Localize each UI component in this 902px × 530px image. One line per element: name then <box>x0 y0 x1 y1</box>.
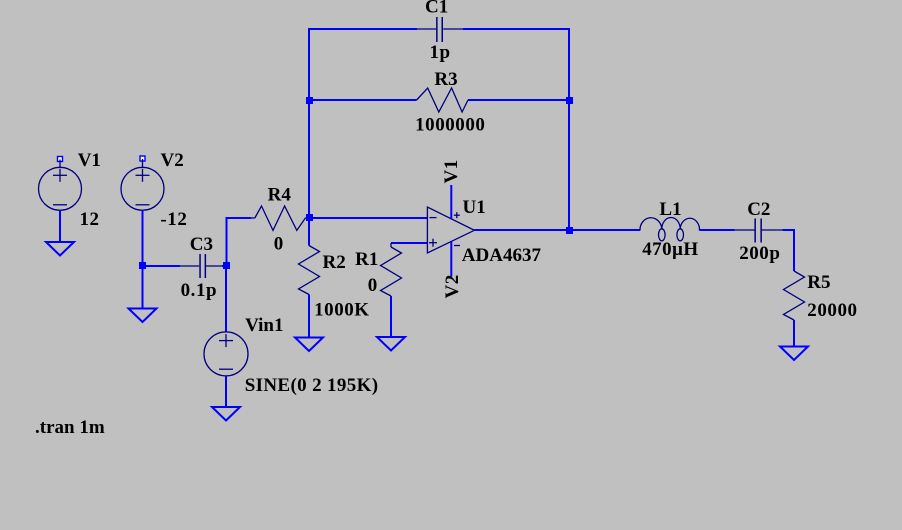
wire output <box>474 229 640 231</box>
wire top feedback left <box>308 28 417 30</box>
node junction R3 left <box>306 97 313 104</box>
svg-text:12: 12 <box>80 209 100 230</box>
svg-text:R1: R1 <box>355 249 378 270</box>
svg-text:1p: 1p <box>430 42 451 63</box>
node junction C3 right <box>223 262 230 269</box>
voltage source Vin1 <box>204 266 248 407</box>
wire C3 right <box>222 265 227 267</box>
wire V1 to ground <box>59 210 61 242</box>
wire R4 left <box>226 217 252 219</box>
svg-text:U1: U1 <box>463 197 486 218</box>
op-amp U1 <box>427 207 474 253</box>
wire corner down to R5 <box>793 229 795 271</box>
resistor R5 <box>784 271 805 347</box>
svg-text:V1: V1 <box>78 150 101 171</box>
svg-text:R2: R2 <box>323 252 346 273</box>
ground R1 <box>377 337 405 351</box>
node junction output <box>566 227 573 234</box>
wire C3 left <box>143 265 181 267</box>
svg-text:R3: R3 <box>434 69 457 90</box>
wire noninverting input <box>391 242 427 244</box>
svg-text:L1: L1 <box>659 199 681 220</box>
svg-text:V2: V2 <box>442 274 463 298</box>
node junction R3 right <box>566 97 573 104</box>
ground R5 <box>780 347 808 361</box>
wire R3 right <box>468 99 569 101</box>
inductor L1 <box>640 217 700 240</box>
svg-text:0: 0 <box>368 275 378 296</box>
wire inverting input <box>309 217 427 219</box>
ground Vin1 <box>212 407 240 421</box>
wire left vertical <box>308 28 310 218</box>
resistor R2 <box>299 218 320 338</box>
capacitor C3 <box>180 254 222 278</box>
svg-text:Vin1: Vin1 <box>245 315 283 336</box>
svg-text:C3: C3 <box>190 234 213 255</box>
voltage source V2 <box>121 156 164 210</box>
svg-text:20000: 20000 <box>807 300 857 321</box>
pin V+ wire <box>450 185 452 219</box>
resistor R1 <box>381 243 402 337</box>
svg-text:200p: 200p <box>739 243 780 264</box>
svg-text:V1: V1 <box>441 159 462 183</box>
wire V2 down <box>142 210 144 308</box>
ground V1 <box>46 242 74 256</box>
wire L1 to C2 <box>700 229 735 231</box>
wire C2 to corner <box>783 229 795 231</box>
pin V- wire <box>450 242 452 277</box>
ground V2 <box>129 309 157 323</box>
svg-text:R4: R4 <box>268 185 292 206</box>
svg-text:1000000: 1000000 <box>415 115 485 136</box>
node junction V2/C3 <box>139 262 146 269</box>
node junction R4/R2/opamp <box>306 214 313 221</box>
svg-text:SINE(0 2 195K): SINE(0 2 195K) <box>245 375 379 396</box>
svg-text:C1: C1 <box>425 0 448 18</box>
svg-text:.tran 1m: .tran 1m <box>35 417 105 438</box>
resistor R4 <box>251 206 309 230</box>
voltage source V1 <box>39 157 82 211</box>
svg-text:C2: C2 <box>747 199 770 220</box>
capacitor C1 <box>417 17 463 42</box>
wire C3 node up to R4 <box>226 218 228 266</box>
svg-text:-12: -12 <box>160 209 187 230</box>
svg-text:V2: V2 <box>161 150 184 171</box>
wire top feedback right <box>463 28 570 30</box>
svg-text:R5: R5 <box>807 272 830 293</box>
svg-text:470µH: 470µH <box>642 239 698 260</box>
resistor R3 <box>417 88 468 112</box>
capacitor C2 <box>735 219 783 243</box>
wire R3 left <box>309 99 417 101</box>
svg-text:ADA4637: ADA4637 <box>462 245 542 266</box>
svg-text:0.1p: 0.1p <box>181 280 218 301</box>
wire right vertical <box>568 28 570 230</box>
svg-text:1000K: 1000K <box>314 300 370 321</box>
svg-text:0: 0 <box>274 234 284 255</box>
ground R2 <box>295 338 323 352</box>
